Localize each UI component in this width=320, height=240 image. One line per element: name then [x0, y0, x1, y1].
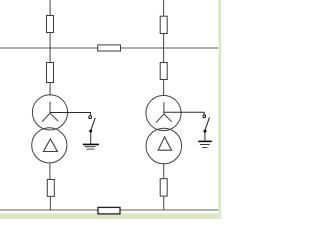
ground symbol E2 [198, 141, 212, 147]
wire: QS1 to ground [90, 133, 92, 144]
transformer T1 primary circle (wye) [32, 95, 67, 130]
earthing switch QS2 hinge (open contact) [203, 115, 206, 118]
T2 delta symbol [158, 137, 171, 150]
QS1 fixed contact dot [89, 130, 92, 133]
right green margin band [219, 0, 221, 219]
wire: QF6 to bottom bus [163, 196, 165, 210]
breaker QF1 [47, 16, 54, 33]
T1 secondary circle (delta) [32, 128, 67, 163]
wire: right feeder top drop [163, 0, 165, 16]
wire: right feeder between QF4 and bus [163, 34, 165, 63]
T2 wye symbol [156, 102, 172, 123]
breaker QF2 [47, 63, 54, 83]
transformer T2 primary circle (wye) [146, 95, 181, 130]
wire: QF5 to transformer T2 [163, 80, 165, 96]
bottom green margin band [0, 214, 221, 219]
wire: left feeder top drop [49, 0, 51, 15]
QS2 blade [205, 117, 209, 130]
bottom bus line [0, 209, 218, 211]
wire: T1 neutral to earthing switch [50, 113, 91, 116]
wire: QF3 to bottom bus [49, 196, 51, 210]
fuse F2 on bottom bus [98, 207, 120, 214]
breaker QF4 [160, 16, 167, 33]
fuse F1 on top bus [98, 45, 121, 51]
T1 wye symbol [42, 102, 58, 122]
top bus line [0, 47, 218, 49]
breaker QF3 [47, 180, 54, 197]
ground symbol E1 [83, 144, 99, 149]
wire: T2 neutral to earthing switch [164, 112, 204, 115]
QS1 blade [91, 118, 95, 130]
T2 secondary circle (delta) [146, 128, 182, 164]
wire: T2 to QF6 [163, 164, 165, 179]
wire: QF2 to transformer T1 [49, 82, 51, 95]
wire: QS2 to ground [204, 133, 206, 141]
wire: T1 to QF3 [49, 163, 51, 180]
T1 delta symbol [43, 139, 57, 152]
earthing switch QS1 hinge (open contact) [89, 116, 92, 119]
QS2 fixed contact dot [204, 130, 207, 133]
breaker QF5 [160, 63, 167, 80]
wire: left feeder between QF1 and bus [49, 33, 51, 63]
breaker QF6 [160, 179, 167, 196]
